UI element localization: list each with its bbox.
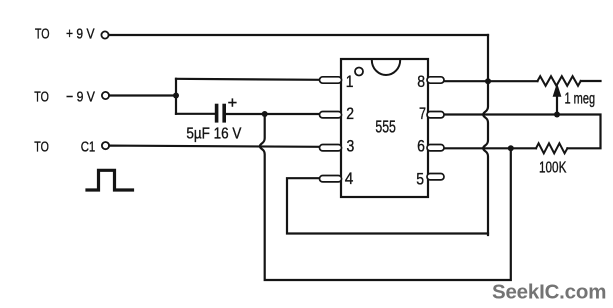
pin stub 8: [427, 77, 444, 83]
pin stub 2: [320, 112, 342, 118]
wire pin2/pin6 bottom loop with hop over pin3 line: [260, 114, 511, 280]
capacitor plus sign: [229, 99, 236, 106]
junction node pin8/+9V: [485, 78, 491, 84]
svg-text:100K: 100K: [539, 159, 567, 176]
pulse waveform symbol: [87, 170, 133, 190]
wire pin6 line: [444, 147, 537, 149]
svg-text:3: 3: [347, 136, 355, 155]
svg-text:5µF 16 V: 5µF 16 V: [186, 126, 242, 143]
svg-text:C1: C1: [81, 138, 96, 155]
wire capacitor left lead: [176, 113, 215, 115]
terminal TO -9V: [102, 92, 109, 99]
wire -9V to junction: [109, 94, 176, 96]
pin stub 1: [320, 77, 342, 83]
pin stub 4: [320, 176, 342, 182]
svg-text:1 meg: 1 meg: [565, 91, 596, 108]
svg-text:2: 2: [346, 104, 354, 123]
wire +9V top rail: [109, 34, 488, 36]
pot wiper arrow: [556, 96, 558, 116]
svg-text:4: 4: [345, 169, 354, 188]
wire pin1 line: [176, 79, 321, 80]
capacitor C 5uF plates: [215, 106, 219, 121]
terminal TO C1: [102, 142, 109, 149]
svg-text:TO: TO: [35, 25, 50, 42]
IC pin1 indicator circle: [355, 68, 363, 76]
pin stub 3: [320, 145, 342, 151]
svg-text:TO: TO: [34, 138, 49, 155]
svg-text:1: 1: [346, 72, 354, 91]
wire capacitor right lead to pin2: [226, 113, 321, 115]
wire pot right lead: [581, 80, 601, 82]
svg-text:555: 555: [375, 117, 396, 137]
terminal TO +9V: [101, 31, 108, 38]
junction node cap/pin2: [262, 111, 268, 117]
wire pin4 bottom loop: [287, 178, 488, 233]
svg-text:5: 5: [416, 170, 424, 189]
IC notch: [372, 60, 400, 75]
pin stub 7: [427, 112, 444, 118]
junction node pin6 loop: [508, 145, 514, 151]
svg-text:8: 8: [417, 72, 425, 91]
resistor R2 100K zigzag: [536, 143, 567, 153]
pin stub 5: [427, 174, 444, 180]
svg-text:SeekIC.com: SeekIC.com: [492, 281, 606, 304]
pin stub 6: [427, 145, 444, 151]
potentiometer R1 1 meg zigzag: [538, 76, 581, 86]
svg-text:+ 9 V: + 9 V: [66, 25, 95, 42]
svg-text:6: 6: [417, 136, 425, 155]
junction node wiper/pin7: [554, 112, 560, 118]
wire C1 to pin3: [109, 146, 320, 147]
wire pin7 line to right corner: [444, 115, 601, 149]
svg-text:TO: TO: [34, 88, 49, 105]
wire vertical +9V drop with hops over pin7 and pin6 lines: [483, 35, 488, 235]
svg-text:7: 7: [419, 104, 426, 123]
wire pin8 to pot: [444, 80, 538, 82]
junction node -9V: [173, 93, 179, 99]
IC U1 555 body: [341, 59, 428, 197]
svg-text:− 9 V: − 9 V: [66, 88, 95, 105]
wire vertical at x176: [175, 79, 177, 114]
